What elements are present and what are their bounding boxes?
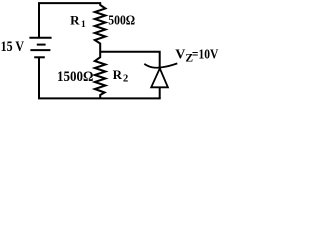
svg-text:500Ω: 500Ω [108, 12, 135, 27]
svg-text:R: R [70, 12, 80, 27]
svg-text:1500Ω: 1500Ω [57, 69, 93, 85]
svg-text:2: 2 [123, 74, 128, 85]
svg-text:V: V [175, 47, 185, 62]
svg-text:=10V: =10V [192, 47, 218, 62]
svg-text:1: 1 [81, 20, 86, 30]
svg-text:R: R [113, 67, 123, 82]
svg-text:15 V: 15 V [1, 39, 25, 55]
